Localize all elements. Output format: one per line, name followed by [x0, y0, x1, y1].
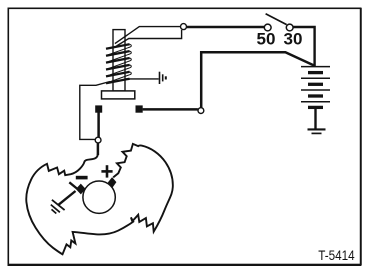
svg-text:50: 50: [257, 30, 276, 49]
coil ground: [160, 72, 166, 84]
solenoid winding L1: [106, 44, 131, 83]
junction node: [95, 137, 101, 143]
battery B1: [301, 67, 330, 108]
contact right: [136, 105, 143, 112]
wire left contact down: [97, 113, 100, 138]
label minus: [76, 176, 88, 180]
brush plus: [108, 177, 117, 188]
label plus: [101, 165, 112, 177]
solenoid plunger: [102, 91, 135, 99]
coil bottom lead to junction: [80, 82, 110, 140]
motor ground: [51, 200, 65, 214]
motor housing: [26, 144, 173, 254]
wire switch-to-battery: [293, 27, 315, 67]
node B: [198, 108, 204, 114]
svg-text:T-5414: T-5414: [318, 248, 355, 263]
coil ground wire: [125, 78, 159, 80]
brush minus stub: [69, 182, 77, 188]
switch blade: [266, 14, 287, 25]
switch terminal 30: [286, 24, 293, 31]
terminal node circle: [181, 24, 187, 30]
coil lead upper to terminal: [115, 27, 180, 44]
battery ground stem: [314, 109, 316, 129]
wire right contact to node: [143, 108, 198, 111]
wire junction to motor: [97, 143, 100, 155]
brush minus: [76, 184, 86, 195]
contact left: [95, 105, 102, 112]
solenoid core: [113, 30, 125, 91]
wire terminal-to-switch: [186, 26, 264, 28]
coil lead lower to terminal: [117, 30, 182, 46]
motor armature circle: [83, 181, 115, 213]
battery ground: [308, 128, 326, 130]
motor ground lead: [58, 191, 75, 205]
svg-text:30: 30: [284, 30, 303, 49]
wire node-to-battery: [201, 52, 314, 108]
switch terminal 50: [264, 24, 271, 31]
